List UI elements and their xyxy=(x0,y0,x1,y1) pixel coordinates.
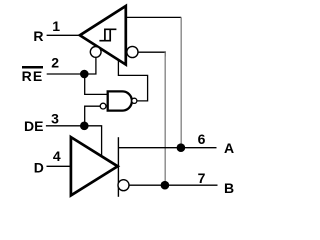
svg-text:4: 4 xyxy=(53,148,61,164)
svg-text:D: D xyxy=(34,159,44,175)
wire gate output up to receiver bottom edge xyxy=(118,61,147,101)
junction DE xyxy=(80,122,89,131)
svg-text:6: 6 xyxy=(198,131,206,147)
svg-text:7: 7 xyxy=(198,170,206,186)
junction B xyxy=(161,181,170,190)
gate U2 (AND with inverted input and output) xyxy=(108,91,132,110)
wire DE pin line (pin 3) xyxy=(46,125,84,127)
svg-text:B: B xyxy=(224,180,234,196)
wire RE pin line (pin 2) xyxy=(47,73,84,75)
svg-text:DE: DE xyxy=(24,118,43,134)
gate bottom input bubble xyxy=(100,103,106,109)
wire D pin line (pin 4) xyxy=(47,165,71,167)
wire RE junction to receiver enable bubble xyxy=(84,57,96,74)
svg-text:1: 1 xyxy=(52,18,60,34)
wire receiver output top feedback to A xyxy=(126,16,181,18)
junction RE xyxy=(80,70,89,79)
wire DE junction up to gate bottom input bubble xyxy=(85,106,101,126)
svg-text:R: R xyxy=(33,28,43,44)
wire DE junction to driver enable xyxy=(84,126,101,157)
junction A xyxy=(177,143,186,152)
receiver inverting input bubble xyxy=(127,46,138,57)
receiver triangle U1a xyxy=(80,6,126,65)
wire vertical from A junction up (gray) xyxy=(180,17,182,147)
wire RE junction down to gate top input xyxy=(85,74,108,94)
receiver enable bubble xyxy=(90,47,101,58)
svg-text:2: 2 xyxy=(51,54,59,70)
hysteresis symbol xyxy=(99,29,116,40)
wire vertical from B junction up (gray) xyxy=(164,52,166,185)
gate output bubble xyxy=(132,98,137,103)
driver inverting output bubble (B) xyxy=(118,180,129,191)
wire from receiver inverting input bubble xyxy=(138,52,166,56)
wire B line (pin 7) xyxy=(129,184,217,186)
svg-text:A: A xyxy=(224,140,234,156)
svg-text:3: 3 xyxy=(51,111,59,127)
wire A line (pin 6) xyxy=(118,147,216,149)
wire R pin line (pin 1) xyxy=(47,34,82,36)
wire driver output bar xyxy=(117,137,119,197)
driver triangle U1b xyxy=(71,137,118,195)
svg-text:RE: RE xyxy=(22,68,44,84)
